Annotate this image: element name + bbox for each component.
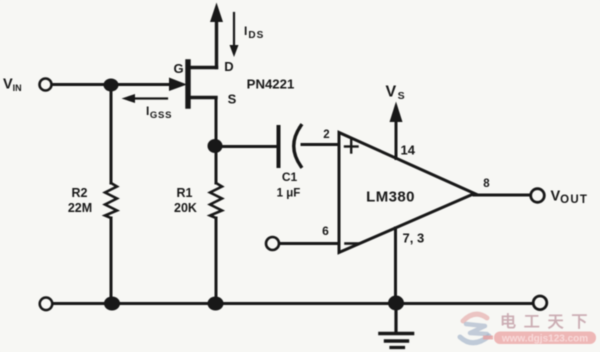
label IGSS [146, 104, 172, 121]
svg-text:22M: 22M [68, 201, 92, 215]
pin number 8 [483, 178, 490, 190]
svg-text:PN4221: PN4221 [247, 77, 295, 92]
label LM380 [366, 189, 415, 206]
arrow IGSS [122, 94, 168, 103]
wire C1 to op-amp pin 2 [302, 143, 339, 146]
wire R1 to bottom rail [215, 218, 218, 304]
label VS [386, 84, 405, 103]
minus input sign [346, 242, 359, 245]
wire pins 7,3 to ground rail [394, 228, 397, 304]
pin number 2 [323, 129, 329, 141]
transistor Q1 source lead [188, 96, 216, 99]
node input junction (VIN/R2/gate) [104, 79, 119, 92]
watermark text [500, 312, 595, 331]
label R1 [177, 186, 193, 200]
arrow VS supply [390, 102, 403, 159]
svg-text:电工天下: 电工天下 [500, 312, 595, 331]
pin label D [224, 59, 233, 74]
node VIN input terminal [40, 79, 52, 91]
svg-text:S: S [228, 92, 237, 107]
svg-text:G: G [173, 61, 183, 76]
value 20K [174, 201, 197, 215]
node pin6 input terminal [266, 237, 279, 250]
svg-text:20K: 20K [174, 201, 197, 215]
pin label G [173, 61, 183, 76]
value 22M [68, 201, 92, 215]
capacitor C1 left plate [277, 127, 281, 166]
label VOUT [551, 189, 589, 207]
op-amp U1 LM380 triangle [339, 133, 475, 253]
label IDS [244, 24, 264, 41]
watermark logo [460, 314, 489, 343]
value 1uF [277, 188, 301, 200]
svg-text:6: 6 [322, 224, 329, 238]
svg-text:R2: R2 [72, 186, 88, 200]
node bottom-left terminal [40, 298, 53, 311]
watermark url band [483, 332, 596, 345]
wire bottom ground rail [53, 302, 534, 305]
pin label S [228, 92, 237, 107]
wire node A to R1 [215, 146, 218, 183]
wire junction to R2 [110, 85, 113, 183]
capacitor C1 right plate [294, 126, 301, 167]
pin number 14 [401, 143, 416, 158]
node A junction (source/R1/C1) [208, 139, 223, 153]
svg-text:D: D [224, 59, 233, 74]
node VOUT terminal [531, 189, 545, 203]
svg-text:8: 8 [483, 178, 490, 190]
svg-text:www.dgjs123.com: www.dgjs123.com [501, 334, 588, 345]
node rail junction under R2 [104, 297, 120, 311]
label VIN [3, 77, 22, 94]
plus input sign [345, 140, 358, 153]
node bottom-right terminal [533, 296, 547, 310]
ground [380, 303, 413, 348]
transistor Q1 drain lead [188, 66, 217, 69]
wire pin6 terminal to op-amp [280, 242, 340, 245]
transistor Q1 channel bar [185, 62, 190, 106]
label C1 [282, 170, 298, 184]
resistor R2 [105, 183, 117, 218]
label R2 [72, 186, 88, 200]
wire node A to C1 [215, 145, 277, 148]
svg-text:14: 14 [401, 143, 416, 158]
node rail junction at ground [388, 296, 404, 311]
svg-text:LM380: LM380 [366, 189, 415, 206]
arrow IDS [230, 13, 239, 57]
node rail junction under R1 [208, 297, 224, 311]
svg-text:2: 2 [323, 129, 329, 141]
svg-text:1 μF: 1 μF [277, 188, 301, 200]
svg-text:C1: C1 [282, 170, 298, 184]
svg-text:R1: R1 [177, 186, 193, 200]
wire source to node A [215, 98, 218, 147]
resistor R1 [210, 183, 222, 218]
label PN4221 [247, 77, 295, 92]
transistor Q1 PN4221 gate arrow [169, 78, 187, 92]
wire R2 to bottom rail [110, 218, 113, 304]
wire drain up with arrow IDS supply [210, 3, 223, 68]
wire op-amp output [474, 194, 531, 197]
pin number 6 [322, 224, 329, 238]
svg-text:7, 3: 7, 3 [403, 231, 425, 246]
pin number 7, 3 [403, 231, 425, 246]
wire VIN to gate [52, 83, 170, 86]
